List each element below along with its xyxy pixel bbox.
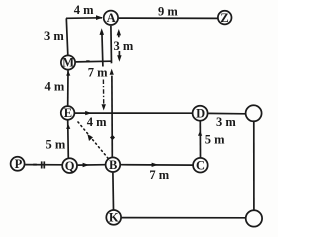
svg-text:D: D — [196, 106, 205, 120]
svg-text:E: E — [64, 106, 72, 120]
svg-text:Z: Z — [220, 11, 228, 25]
svg-text:C: C — [196, 159, 205, 173]
svg-text:3 m: 3 m — [216, 115, 236, 129]
svg-text:7 m: 7 m — [149, 168, 169, 182]
svg-text:4 m: 4 m — [87, 115, 107, 129]
svg-text:5 m: 5 m — [46, 138, 66, 152]
svg-text:K: K — [109, 211, 119, 225]
svg-text:M: M — [62, 56, 74, 70]
svg-text:Q: Q — [65, 159, 75, 173]
svg-text:3 m: 3 m — [44, 29, 64, 43]
svg-text:7 m: 7 m — [88, 66, 108, 80]
svg-text:B: B — [109, 158, 117, 172]
svg-text:4 m: 4 m — [45, 80, 65, 94]
svg-text:5 m: 5 m — [205, 133, 225, 147]
svg-text:9 m: 9 m — [158, 4, 178, 18]
svg-text:P: P — [15, 157, 23, 171]
svg-text:4 m: 4 m — [74, 3, 94, 17]
svg-text:3 m: 3 m — [114, 39, 134, 53]
svg-text:A: A — [107, 11, 116, 25]
